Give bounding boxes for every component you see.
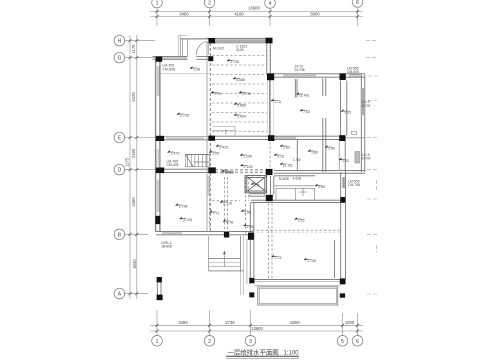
- svg-text:2.55: 2.55: [247, 225, 254, 229]
- svg-text:6: 6: [356, 0, 359, 6]
- svg-text:(2.43): (2.43): [183, 218, 192, 222]
- svg-text:2.60: 2.60: [318, 185, 325, 189]
- svg-text:3×700: 3×700: [362, 104, 371, 108]
- svg-text:2.15: 2.15: [277, 155, 284, 159]
- svg-text:1000: 1000: [345, 320, 355, 325]
- svg-text:2.55: 2.55: [298, 219, 305, 223]
- svg-text:CM-405: CM-405: [167, 163, 179, 167]
- svg-text:JB-80E: JB-80E: [161, 245, 173, 249]
- svg-text:1.92: 1.92: [342, 159, 349, 163]
- svg-text:13600: 13600: [251, 326, 263, 331]
- svg-text:7.71: 7.71: [213, 212, 220, 216]
- svg-text:2.415: 2.415: [219, 146, 228, 150]
- svg-text:2100: 2100: [236, 48, 244, 52]
- svg-text:1:100: 1:100: [284, 350, 300, 356]
- svg-text:1.95: 1.95: [244, 211, 251, 215]
- svg-text:2.80: 2.80: [283, 146, 290, 150]
- svg-text:2.735: 2.735: [230, 60, 239, 64]
- svg-text:5.885: 5.885: [237, 104, 246, 108]
- svg-text:4460: 4460: [131, 197, 136, 207]
- svg-text:D: D: [118, 168, 122, 174]
- svg-text:M-1021: M-1021: [213, 47, 225, 51]
- svg-text:5800: 5800: [310, 11, 320, 16]
- svg-text:1.735: 1.735: [307, 259, 316, 263]
- svg-text:6200: 6200: [290, 320, 300, 325]
- svg-text:3480: 3480: [179, 11, 189, 16]
- svg-text:3: 3: [249, 339, 252, 345]
- svg-text:1.90: 1.90: [328, 147, 335, 151]
- svg-text:2.715: 2.715: [223, 202, 232, 206]
- svg-text:1: 1: [156, 339, 159, 345]
- svg-text:1175: 1175: [131, 44, 136, 54]
- svg-text:6: 6: [356, 339, 359, 345]
- svg-text:CM-505: CM-505: [347, 70, 359, 74]
- svg-text:4: 4: [269, 1, 272, 7]
- svg-text:2735: 2735: [225, 320, 235, 325]
- svg-text:1.75: 1.75: [274, 100, 281, 104]
- svg-text:(2.15): (2.15): [283, 164, 292, 168]
- svg-text:4100: 4100: [234, 11, 244, 16]
- svg-text:7.02: 7.02: [303, 110, 310, 114]
- svg-text:4030: 4030: [132, 259, 137, 269]
- svg-text:M-828: M-828: [279, 177, 289, 181]
- svg-text:2.105: 2.105: [244, 165, 253, 169]
- svg-text:1.75: 1.75: [214, 92, 221, 96]
- svg-text:1.75: 1.75: [275, 256, 282, 260]
- svg-text:G: G: [117, 56, 121, 62]
- svg-text:2190: 2190: [131, 148, 136, 158]
- svg-text:DL708: DL708: [295, 68, 305, 72]
- svg-text:1-7W: 1-7W: [293, 158, 301, 162]
- svg-text:3480: 3480: [178, 320, 188, 325]
- svg-text:2: 2: [208, 339, 211, 345]
- svg-text:5: 5: [341, 339, 344, 345]
- svg-text:5425: 5425: [131, 92, 136, 102]
- svg-text:一层给排水平面图: 一层给排水平面图: [228, 347, 279, 356]
- svg-text:2.735: 2.735: [180, 114, 189, 118]
- svg-text:1175: 1175: [125, 157, 130, 167]
- svg-text:CM-D08: CM-D08: [163, 67, 176, 71]
- svg-text:1: 1: [156, 1, 159, 7]
- svg-text:(1.40): (1.40): [300, 94, 309, 98]
- svg-text:2.735: 2.735: [242, 92, 251, 96]
- svg-text:7.0: 7.0: [254, 184, 259, 188]
- svg-text:H: H: [118, 39, 122, 45]
- svg-text:1.798: 1.798: [179, 205, 188, 209]
- svg-text:B-D28: B-D28: [222, 170, 232, 174]
- svg-text:1.475: 1.475: [171, 152, 180, 156]
- svg-text:4-628: 4-628: [293, 177, 302, 181]
- svg-text:4.78: 4.78: [226, 221, 233, 225]
- svg-text:CM-708: CM-708: [348, 183, 360, 187]
- svg-text:2.900: 2.900: [237, 115, 246, 119]
- svg-text:13600: 13600: [248, 5, 260, 10]
- svg-text:1.05: 1.05: [344, 111, 351, 115]
- svg-text:1.05: 1.05: [212, 152, 219, 156]
- svg-text:1.106: 1.106: [243, 155, 252, 159]
- svg-text:2: 2: [208, 1, 211, 7]
- svg-text:1.80: 1.80: [311, 151, 318, 155]
- svg-text:1.38: 1.38: [193, 68, 200, 72]
- svg-text:3×700: 3×700: [362, 157, 371, 161]
- svg-text:4.085: 4.085: [236, 78, 245, 82]
